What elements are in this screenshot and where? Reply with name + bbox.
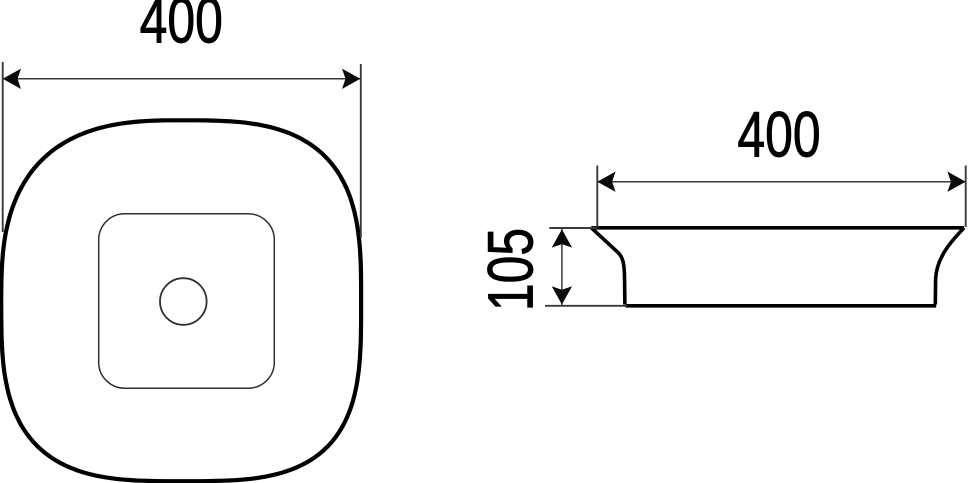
extension line top (side view height): [549, 227, 597, 229]
arrowhead right (top view): [342, 69, 360, 89]
arrowhead left (top view): [3, 69, 21, 89]
arrowhead right (side view width): [947, 172, 965, 192]
basin profile right flared side (side view): [935, 228, 964, 305]
dimension line 400 (side view): [597, 181, 965, 183]
basin profile bottom edge (side view): [626, 304, 937, 308]
extension line left (side view width): [596, 166, 598, 228]
dimension line 400 (top view): [3, 78, 361, 80]
arrowhead left (side view width): [597, 172, 615, 192]
basin profile top edge (side view): [591, 226, 964, 230]
extension line bottom (side view height): [545, 305, 627, 307]
basin outer rim (top view): [1, 120, 361, 481]
svg-text:105: 105: [476, 228, 547, 311]
arrowhead down (side view height): [552, 286, 572, 304]
basin profile left flared side (side view): [591, 228, 625, 305]
extension line right (side view width): [965, 166, 967, 228]
basin inner bowl edge (top view): [99, 214, 275, 388]
extension line left (top view width): [2, 62, 4, 232]
svg-text:400: 400: [140, 0, 223, 57]
arrowhead up (side view height): [552, 229, 572, 247]
dimension line 105 (side view): [561, 229, 563, 306]
svg-text:400: 400: [737, 100, 820, 171]
extension line right (top view width): [360, 64, 362, 238]
drain hole: [160, 278, 207, 325]
